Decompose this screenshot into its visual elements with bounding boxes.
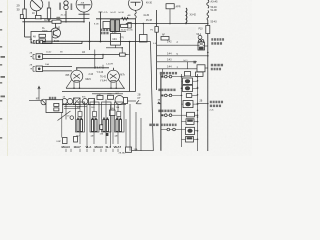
IC1 — [103, 22, 110, 29]
margin note a — [1, 56, 6, 58]
resistor R7 — [115, 20, 119, 32]
note text scope 2 lines — [211, 64, 223, 67]
inductor L1 — [64, 1, 68, 5]
wire stubs below labels — [65, 149, 67, 152]
pin pair row5 — [167, 128, 170, 131]
delay line DL1 — [43, 43, 83, 45]
wire — [169, 9, 171, 24]
CRT cathode bus — [66, 87, 125, 89]
block 30B — [110, 110, 116, 116]
wire drops — [65, 104, 67, 119]
transformer TR3 — [103, 117, 105, 119]
transformer TR2 — [92, 117, 94, 119]
wire — [110, 31, 126, 33]
delay line DL2 — [43, 53, 130, 55]
stain — [160, 27, 196, 40]
lamp E1 — [62, 99, 68, 105]
note row 5G5 — [158, 110, 175, 113]
diagonal wire — [58, 111, 71, 121]
row wire y55.8 — [157, 55, 208, 57]
capacitor box RB6 — [186, 119, 194, 125]
capacitor C6 — [100, 125, 104, 130]
note text 电源插头 — [100, 29, 111, 32]
wire bus horizontal — [126, 23, 208, 25]
resistor R16 — [155, 27, 158, 33]
resistor R10 — [39, 34, 46, 37]
paper edge marks — [0, 11, 2, 139]
wire bus — [22, 21, 84, 23]
transformer TR4 — [116, 117, 118, 119]
resistor R6 — [110, 20, 114, 32]
yoke bar — [79, 13, 90, 15]
rail x198.6 dots — [197, 80, 199, 82]
channel box CH3 — [102, 102, 112, 132]
resistor R17 — [128, 23, 131, 29]
resistor R5 zigzag — [122, 17, 129, 20]
transistor Q2 — [41, 99, 47, 105]
CRT right triode Q4 — [107, 70, 119, 82]
resistor R15 — [54, 108, 59, 111]
delay line DL3 — [43, 66, 73, 68]
margin note c — [1, 96, 6, 98]
wire — [65, 11, 67, 22]
transformer T3 small — [74, 98, 81, 105]
coil L3 on wire — [135, 9, 137, 12]
note row 1A2 — [158, 89, 175, 92]
note text 空载 — [100, 32, 108, 35]
block B4 — [49, 97, 56, 100]
wire — [115, 45, 117, 48]
wire — [161, 69, 163, 77]
lamp E5 — [70, 116, 74, 120]
pin pair row3 — [161, 114, 163, 116]
wire — [24, 22, 26, 37]
wire — [132, 150, 154, 152]
resistor R13 — [206, 26, 210, 34]
box bottom y91.5 — [62, 91, 136, 93]
wire cap — [99, 11, 103, 13]
resistor R9 — [120, 53, 126, 56]
block 7N1 — [196, 72, 204, 76]
pin pair row1 — [161, 76, 163, 78]
channel row 2 connector J2 — [36, 54, 43, 60]
wire y93.8 — [92, 93, 123, 95]
transformer TR1 — [77, 117, 79, 119]
devices bottom bus — [62, 104, 126, 106]
capacitor C4 — [74, 137, 78, 143]
block B2 — [111, 34, 121, 46]
wire — [124, 100, 136, 102]
wire — [143, 23, 145, 25]
resistor R8 — [121, 24, 128, 27]
transistor box RB7 — [186, 127, 195, 134]
row wire y68.8 — [157, 68, 197, 70]
ladder rail x197.5 — [197, 74, 199, 151]
wire — [125, 23, 127, 26]
channel row 3 connector J3 — [36, 66, 43, 72]
channel row 1 connector J1 — [37, 40, 43, 43]
block EM — [126, 147, 132, 152]
tag — [56, 17, 60, 21]
relay box RB5 — [187, 112, 195, 117]
wire — [64, 107, 80, 109]
lamp E4 — [115, 96, 124, 105]
junction square — [106, 133, 109, 136]
channel box CH2 — [90, 102, 99, 132]
wire main right rail — [207, 34, 209, 152]
ladder rail x181.5 — [181, 74, 183, 147]
lamp E2 — [67, 99, 73, 105]
spoke — [118, 80, 124, 89]
vertical x156.5 — [156, 10, 158, 90]
wire verticals to labels — [79, 132, 81, 145]
wire bus y41.6 — [43, 40, 151, 42]
inductor L4 coil — [207, 0, 209, 8]
wire — [198, 103, 208, 105]
resistor R2 — [48, 2, 50, 9]
capacitor C3 — [108, 95, 114, 99]
block DBP — [63, 138, 68, 144]
wire jog — [187, 62, 189, 69]
tube V2 — [129, 0, 143, 10]
wire — [24, 19, 26, 22]
wire verticals 130/136/141 — [129, 104, 131, 151]
wire — [63, 103, 68, 105]
paper fold line — [7, 0, 9, 156]
note text right 2 lines — [211, 38, 224, 41]
wire — [94, 50, 96, 68]
transistor box RB3 — [183, 101, 193, 108]
wire — [29, 99, 41, 101]
wire — [100, 12, 102, 42]
resistor R11 — [39, 39, 46, 42]
wire x110.5 — [110, 105, 112, 149]
lamp BL1 — [198, 35, 202, 39]
resistor R1 — [23, 9, 26, 19]
vertical x150.5 — [151, 42, 154, 151]
wire x113 — [112, 116, 114, 145]
inductor L2 — [185, 8, 188, 23]
inductor L5 coil — [207, 11, 209, 21]
wire — [89, 22, 91, 50]
diode D1 (circle with slash) — [30, 0, 43, 11]
capacitor C1 — [20, 15, 23, 19]
channel box CH4 — [115, 102, 125, 132]
wire — [36, 11, 38, 19]
relay K1 — [89, 99, 95, 105]
CRT bar — [76, 67, 109, 69]
wire bus — [96, 18, 136, 20]
note row 1A2a — [160, 72, 177, 75]
note row 5c6 — [149, 124, 158, 127]
block B3 oscilloscope — [193, 61, 196, 64]
wire — [24, 0, 26, 9]
block B1 — [31, 32, 52, 44]
node on bar — [94, 67, 96, 69]
transistor box RB2 — [183, 78, 193, 84]
resistor R4 — [52, 20, 61, 23]
wire — [61, 113, 63, 138]
wire bus — [22, 18, 89, 20]
channel box CH1 — [76, 102, 85, 132]
vertical x160.5 — [160, 74, 162, 151]
rail A x161 — [160, 74, 162, 151]
transistor box RB2b — [183, 85, 193, 91]
block AF — [161, 37, 169, 41]
relay box RB1 — [185, 72, 191, 77]
pin pair row2 — [161, 95, 163, 97]
wire — [83, 12, 85, 22]
relay box RB2c — [186, 94, 192, 98]
resistor R14 — [54, 103, 59, 106]
vertical x129.5 — [129, 42, 131, 92]
arrow — [38, 86, 40, 100]
note input-cable 2 lines — [210, 101, 223, 104]
block B5 — [140, 35, 148, 43]
margin note b — [1, 76, 6, 78]
capacitor C5 — [124, 98, 128, 104]
capacitor box RB8 — [186, 137, 194, 142]
wire — [159, 103, 161, 105]
row wire y45.2 — [157, 44, 198, 46]
capacitor C2 — [97, 96, 103, 100]
wire — [64, 105, 87, 107]
wire x87 — [86, 105, 88, 149]
wire — [205, 45, 208, 47]
spoke — [66, 80, 72, 89]
resistor R12 — [166, 4, 174, 9]
resistor R3 — [36, 15, 42, 18]
CRT left triode Q3 — [71, 70, 83, 82]
row wire y61.8 — [157, 61, 197, 63]
tube V1 — [76, 0, 92, 12]
diode D2 arrow — [136, 100, 141, 104]
sensor T2 — [199, 40, 201, 42]
lamp E3 — [82, 99, 88, 105]
wire x126 — [125, 119, 127, 152]
